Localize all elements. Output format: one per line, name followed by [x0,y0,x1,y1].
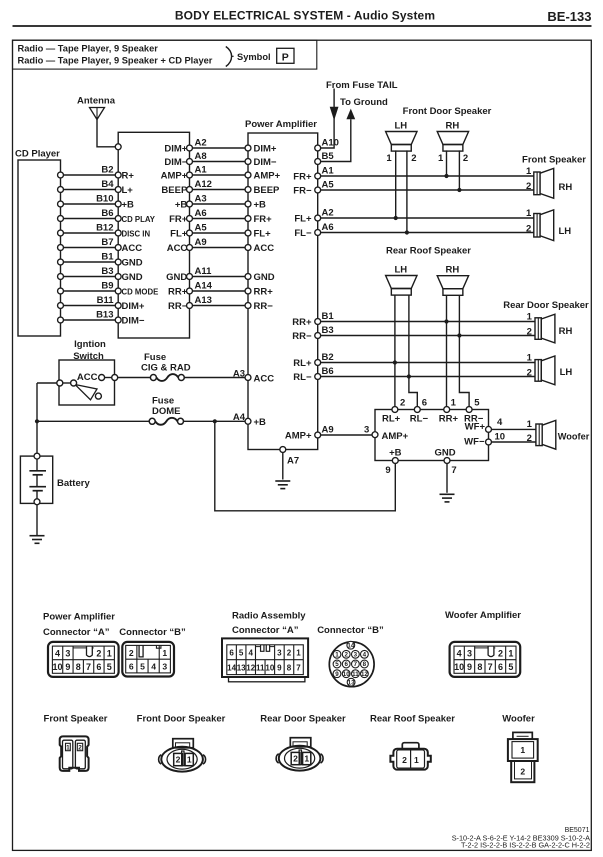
svg-text:7: 7 [296,664,301,673]
svg-text:LH: LH [559,226,572,237]
svg-text:3: 3 [65,649,70,659]
svg-text:GND: GND [122,272,143,283]
svg-text:2: 2 [176,755,181,765]
svg-text:6: 6 [129,662,134,672]
svg-text:CIG & RAD: CIG & RAD [141,362,191,373]
svg-text:RR−: RR− [168,301,188,312]
svg-text:WF+: WF+ [465,422,486,433]
svg-text:B1: B1 [101,251,114,262]
svg-text:FL+: FL+ [294,213,312,224]
svg-text:Radio — Tape Player, 9 Speaker: Radio — Tape Player, 9 Speaker + CD Play… [18,55,213,65]
svg-text:RH: RH [559,182,573,193]
svg-text:12: 12 [246,664,255,673]
svg-text:AMP+: AMP+ [382,431,409,442]
svg-text:DIM+: DIM+ [254,143,277,154]
svg-text:2: 2 [293,754,298,764]
svg-text:Fuse: Fuse [152,396,174,407]
svg-text:3: 3 [354,652,358,659]
svg-text:BEEP: BEEP [254,185,281,196]
svg-text:RR+: RR+ [439,414,459,425]
svg-text:ACC: ACC [122,243,143,254]
svg-text:GND: GND [122,257,143,268]
svg-text:FR+: FR+ [254,214,273,225]
svg-text:5: 5 [239,649,244,658]
svg-text:A3: A3 [233,368,245,379]
svg-text:DIM−: DIM− [122,315,145,326]
svg-text:GND: GND [166,272,187,283]
svg-text:A1: A1 [322,165,335,176]
svg-text:A12: A12 [195,179,212,190]
svg-text:1: 1 [296,649,301,658]
svg-text:AMP+: AMP+ [254,170,281,181]
svg-text:LH: LH [394,264,407,275]
svg-text:RL−: RL− [293,372,312,383]
svg-text:1: 1 [526,208,532,219]
svg-text:B6: B6 [322,366,334,377]
svg-text:Rear Door Speaker: Rear Door Speaker [260,714,346,725]
svg-text:Woofer: Woofer [558,432,590,442]
svg-text:13: 13 [348,679,355,686]
svg-text:B12: B12 [96,222,113,233]
svg-text:1: 1 [335,652,339,659]
svg-text:10: 10 [53,662,63,672]
svg-text:10: 10 [265,664,274,673]
svg-text:2: 2 [520,766,525,776]
svg-text:A2: A2 [322,207,334,218]
svg-text:9: 9 [385,465,390,476]
svg-text:A13: A13 [195,295,212,306]
svg-text:7: 7 [488,662,493,672]
svg-text:FR+: FR+ [169,214,188,225]
svg-text:B4: B4 [101,179,114,190]
svg-text:2: 2 [400,398,405,409]
svg-text:RH: RH [446,120,460,131]
svg-text:9: 9 [65,662,70,672]
svg-text:CD MODE: CD MODE [122,287,159,296]
svg-text:Rear Roof Speaker: Rear Roof Speaker [370,714,455,725]
svg-text:B11: B11 [97,295,115,306]
svg-text:RR−: RR− [292,331,312,342]
svg-text:ACC: ACC [167,243,188,254]
svg-text:Connector “B”: Connector “B” [119,627,186,638]
svg-text:RR−: RR− [254,301,274,312]
svg-text:Igntion: Igntion [74,339,106,350]
svg-text:1: 1 [162,648,167,658]
svg-text:12: 12 [361,671,368,678]
svg-text:A8: A8 [195,151,207,162]
svg-text:AMP+: AMP+ [285,430,312,441]
svg-text:B1: B1 [322,311,335,322]
svg-text:B10: B10 [96,193,113,204]
svg-text:FR+: FR+ [293,171,312,182]
svg-text:7: 7 [354,661,358,668]
svg-text:7: 7 [86,662,91,672]
svg-text:BODY ELECTRICAL SYSTEM - A: BODY ELECTRICAL SYSTEM - Audio System [175,9,435,23]
svg-text:Front Door Speaker: Front Door Speaker [137,714,226,725]
svg-text:RR+: RR+ [168,286,188,297]
svg-text:2: 2 [498,649,503,659]
svg-text:Rear Door Speaker: Rear Door Speaker [503,300,589,311]
svg-text:1: 1 [508,649,513,659]
svg-text:4: 4 [457,649,462,659]
svg-text:3: 3 [162,662,167,672]
svg-text:11: 11 [352,671,359,678]
svg-text:T-2-2 IS-2-2-B IS-2-2-B GA-2-2: T-2-2 IS-2-2-B IS-2-2-B GA-2-2-C H-2-2 [461,840,590,849]
svg-text:DOME: DOME [152,406,181,417]
svg-text:RH: RH [559,326,573,337]
svg-text:14: 14 [227,664,236,673]
svg-text:5: 5 [107,662,112,672]
svg-text:Symbol: Symbol [237,52,271,62]
svg-text:1: 1 [527,311,533,322]
svg-text:Connector “A”: Connector “A” [232,625,299,636]
svg-text:2: 2 [96,649,101,659]
svg-text:8: 8 [287,664,292,673]
svg-text:3: 3 [364,425,369,436]
svg-text:B3: B3 [101,266,113,277]
svg-text:RR+: RR+ [254,286,274,297]
svg-text:CD Player: CD Player [15,149,60,160]
svg-text:A9: A9 [322,424,334,435]
svg-text:1: 1 [187,755,192,765]
svg-text:8: 8 [363,661,367,668]
svg-text:5: 5 [508,662,513,672]
svg-text:9: 9 [335,671,339,678]
svg-text:ACC: ACC [254,243,275,254]
svg-text:+B: +B [122,199,135,210]
svg-text:4: 4 [497,417,503,428]
svg-text:A6: A6 [322,222,334,233]
svg-text:L+: L+ [122,185,134,196]
svg-text:2: 2 [527,368,532,379]
svg-text:DIM−: DIM− [254,157,277,168]
svg-text:2: 2 [526,224,531,235]
svg-text:10: 10 [495,431,506,442]
svg-text:8: 8 [477,662,482,672]
svg-text:Battery: Battery [57,478,90,489]
svg-text:A10: A10 [322,137,339,148]
svg-text:A9: A9 [195,237,207,248]
svg-text:From Fuse TAIL: From Fuse TAIL [326,80,398,91]
svg-text:B13: B13 [96,309,113,320]
svg-text:13: 13 [237,664,246,673]
svg-text:DISC IN: DISC IN [122,229,151,238]
svg-text:2: 2 [129,648,134,658]
svg-text:FL+: FL+ [254,228,272,239]
svg-text:A6: A6 [195,208,207,219]
svg-text:B2: B2 [322,352,334,363]
svg-text:To Ground: To Ground [340,97,388,108]
svg-text:Antenna: Antenna [77,96,116,107]
svg-text:Fuse: Fuse [144,352,166,363]
svg-text:GND: GND [254,272,275,283]
svg-text:A5: A5 [322,179,335,190]
svg-text:Front Speaker: Front Speaker [44,714,108,725]
svg-text:4: 4 [248,649,253,658]
svg-text:Radio Assembly: Radio Assembly [232,611,306,622]
svg-text:10: 10 [343,671,350,678]
svg-text:ACC: ACC [254,373,275,384]
svg-text:Front Door Speaker: Front Door Speaker [403,106,492,117]
svg-text:RH: RH [446,264,460,275]
svg-text:FL−: FL− [294,228,312,239]
svg-text:P: P [282,52,289,64]
svg-text:2: 2 [527,433,532,444]
svg-text:6: 6 [498,662,503,672]
svg-text:RL+: RL+ [382,414,401,425]
svg-text:Rear Roof Speaker: Rear Roof Speaker [386,246,471,257]
svg-text:FL+: FL+ [170,228,188,239]
svg-text:8: 8 [76,662,81,672]
svg-text:Connector “A”: Connector “A” [43,627,110,638]
svg-text:1: 1 [526,166,532,177]
svg-text:2: 2 [463,153,468,164]
svg-text:1: 1 [107,649,112,659]
svg-text:A2: A2 [195,137,207,148]
svg-text:7: 7 [451,465,456,476]
svg-text:Power Amplifier: Power Amplifier [43,611,115,622]
svg-text:1: 1 [414,755,419,765]
svg-text:A5: A5 [195,222,208,233]
svg-text:1: 1 [527,419,533,430]
svg-text:CD PLAY: CD PLAY [122,215,156,224]
svg-text:DIM+: DIM+ [164,143,187,154]
svg-text:BE-133: BE-133 [547,9,591,24]
svg-text:ACC: ACC [77,372,98,383]
svg-text:1: 1 [304,754,309,764]
svg-text:2: 2 [526,181,531,192]
svg-text:5: 5 [474,398,480,409]
svg-text:1: 1 [527,352,533,363]
svg-text:1: 1 [520,745,525,755]
svg-text:DIM−: DIM− [164,157,187,168]
svg-text:RR+: RR+ [292,317,312,328]
svg-text:+B: +B [389,448,402,459]
svg-text:2: 2 [287,649,292,658]
svg-text:WF−: WF− [464,436,485,447]
svg-text:LH: LH [394,120,407,131]
svg-text:2: 2 [402,755,407,765]
svg-text:9: 9 [277,664,282,673]
svg-text:1: 1 [66,744,70,751]
svg-text:6: 6 [344,661,348,668]
svg-text:2: 2 [78,744,82,751]
svg-text:A11: A11 [195,266,213,277]
svg-text:BEEP: BEEP [161,185,188,196]
svg-text:B2: B2 [101,164,113,175]
svg-text:5: 5 [335,661,339,668]
svg-text:B9: B9 [101,280,113,291]
svg-text:4: 4 [363,652,367,659]
svg-text:6: 6 [96,662,101,672]
svg-text:Front Speaker: Front Speaker [522,154,586,165]
svg-text:2: 2 [411,153,416,164]
svg-text:3: 3 [467,649,472,659]
svg-text:+B: +B [254,199,267,210]
svg-text:Switch: Switch [73,351,104,362]
svg-text:A3: A3 [195,193,207,204]
svg-text:5: 5 [140,662,145,672]
svg-text:1: 1 [451,398,457,409]
svg-text:B3: B3 [322,325,334,336]
svg-text:R+: R+ [122,170,135,181]
svg-text:1: 1 [386,153,392,164]
svg-text:Woofer Amplifier: Woofer Amplifier [445,610,521,621]
svg-text:9: 9 [467,662,472,672]
svg-text:LH: LH [560,367,573,378]
svg-text:2: 2 [527,327,532,338]
svg-text:A1: A1 [195,164,208,175]
svg-text:6: 6 [229,649,234,658]
svg-text:2: 2 [344,652,348,659]
svg-text:A7: A7 [287,456,299,467]
svg-text:Radio — Tape Player, 9 Speaker: Radio — Tape Player, 9 Speaker [18,43,159,53]
svg-text:Connector “B”: Connector “B” [317,625,384,636]
svg-text:6: 6 [422,398,427,409]
svg-text:RL+: RL+ [293,358,312,369]
svg-text:A4: A4 [233,412,246,423]
svg-text:+B: +B [254,417,267,428]
svg-text:4: 4 [55,649,60,659]
svg-text:+B: +B [175,199,188,210]
svg-text:Woofer: Woofer [502,714,535,725]
svg-text:10: 10 [454,662,464,672]
svg-text:GND: GND [434,448,455,459]
svg-text:11: 11 [256,664,265,673]
svg-text:4: 4 [151,662,156,672]
svg-text:B5: B5 [322,151,335,162]
svg-text:FR−: FR− [293,185,312,196]
svg-text:DIM+: DIM+ [122,301,145,312]
svg-text:3: 3 [277,649,282,658]
svg-text:B7: B7 [101,237,113,248]
svg-text:Power Amplifier: Power Amplifier [245,119,317,130]
svg-text:B6: B6 [101,208,113,219]
svg-text:AMP+: AMP+ [161,170,188,181]
svg-text:A14: A14 [195,280,213,291]
svg-text:1: 1 [438,153,444,164]
svg-text:RL−: RL− [410,414,429,425]
svg-text:14: 14 [347,642,354,649]
